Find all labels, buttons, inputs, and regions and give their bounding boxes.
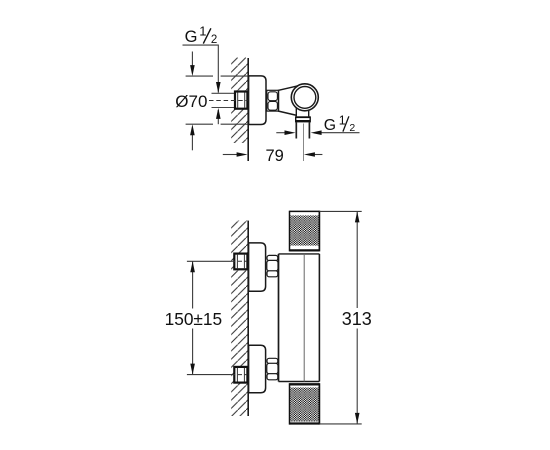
thermostat knob circle inner <box>294 87 316 109</box>
dimension 150+-15 line lower segment with down arrow <box>190 329 195 375</box>
outlet pipe centerline <box>303 124 305 162</box>
outlet pipe <box>296 122 309 138</box>
outlet fitting band <box>296 116 311 122</box>
upper escutcheon <box>249 243 266 291</box>
dimension label G1/2 (top-left) <box>185 23 218 46</box>
hex connector between escutcheon and body <box>267 90 279 111</box>
lower wall hex nut <box>234 367 247 383</box>
svg-text:G: G <box>185 28 198 46</box>
dimension 070 extension line top <box>186 75 248 77</box>
valve body cone <box>279 85 303 115</box>
svg-text:G: G <box>324 117 336 134</box>
supply pipe stub behind wall <box>212 93 236 107</box>
svg-text:313: 313 <box>342 309 372 329</box>
dimension label G1/2 (right of outlet) <box>324 113 356 134</box>
svg-text:79: 79 <box>266 147 284 165</box>
lower escutcheon <box>249 345 266 393</box>
svg-text:1: 1 <box>199 23 206 38</box>
dimension 79 left arrow (right, at wall) <box>223 152 248 157</box>
313 extension line top <box>319 210 361 212</box>
outlet neck <box>296 108 308 117</box>
G1/2 leader arrowhead (down, at pipe top edge) <box>216 82 221 93</box>
svg-text:2: 2 <box>211 34 217 46</box>
svg-text:Ø70: Ø70 <box>175 92 207 111</box>
wall hatch (bottom view) <box>231 221 248 416</box>
upper wall hex nut <box>234 254 247 270</box>
right G1/2 arrow line (left, at pipe right edge) <box>311 130 360 135</box>
G1/2 leader line with corner <box>183 45 219 93</box>
top handle (knurled) <box>290 211 320 252</box>
upper union nut <box>267 255 278 276</box>
bottom handle (knurled) <box>290 383 320 424</box>
lower union nut <box>267 358 278 380</box>
dimension 313 line lower segment with down arrow <box>355 329 360 424</box>
G1/2 counter arrow (up, at pipe bottom edge) <box>216 108 221 124</box>
wall hex nut (top view) <box>235 92 247 109</box>
right G1/2 counter arrow (right, at pipe left edge) <box>276 130 295 135</box>
dimension 150+-15 line upper segment with up arrow <box>190 261 195 308</box>
upper connection centerline (solid then dashed) <box>187 260 247 262</box>
wall face line (top view) <box>247 58 249 161</box>
313 extension line bottom <box>319 423 361 425</box>
wall hatch (top view) <box>231 58 248 144</box>
wall face line (bottom view) <box>247 221 249 416</box>
escutcheon (top view) <box>249 76 266 125</box>
070 upper arrow (down) <box>190 52 195 77</box>
svg-text:150±15: 150±15 <box>165 309 223 329</box>
thermostat knob circle outer <box>291 84 318 111</box>
supply pipe dashed centerline <box>209 100 248 102</box>
dimension 313 line upper segment with up arrow <box>355 211 360 308</box>
dimension 070 extension line bottom <box>186 123 248 125</box>
070 lower arrow (up) <box>190 124 195 150</box>
lower connection centerline (solid then dashed) <box>187 374 247 376</box>
dimension 79 right arrow (left, at pipe centerline) <box>304 152 323 157</box>
mixer body <box>279 254 320 382</box>
